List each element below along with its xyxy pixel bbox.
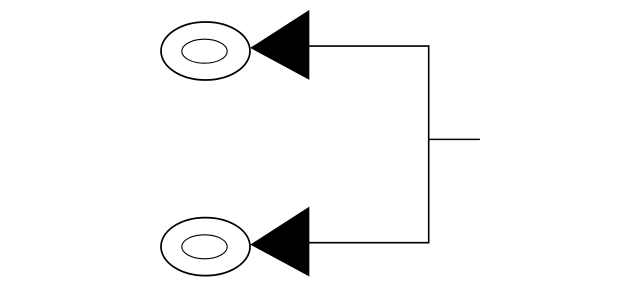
- speaker LS1 outer ellipse: [161, 22, 250, 80]
- speaker LS1 inner ellipse: [182, 39, 227, 63]
- wire output stub: [429, 138, 480, 140]
- wire bottom: LS2 to bus: [309, 242, 430, 244]
- speaker LS2 outer ellipse: [161, 218, 250, 276]
- speaker LS2 inner ellipse: [182, 235, 227, 259]
- wire top: LS1 to bus: [309, 45, 430, 47]
- wire vertical bus: [428, 45, 430, 243]
- speaker LS2 cone triangle: [250, 207, 309, 277]
- speaker LS1 cone triangle: [250, 10, 309, 80]
